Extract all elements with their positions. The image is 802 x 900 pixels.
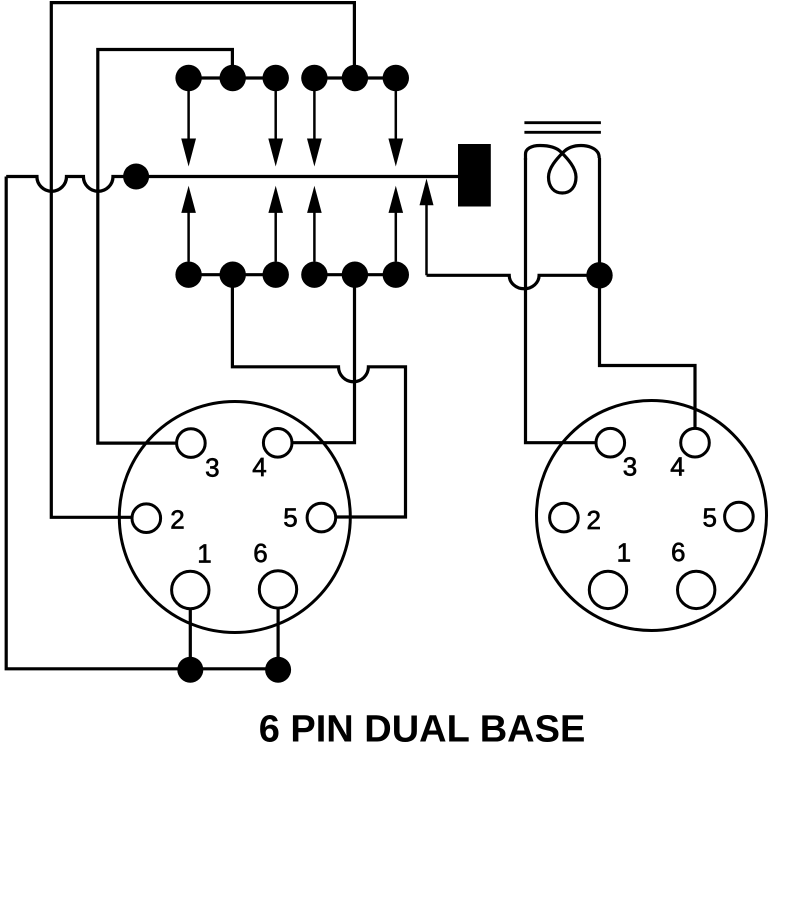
- wire top bus 1: [51, 3, 354, 78]
- svg-text:6: 6: [671, 537, 685, 567]
- contact arrow down A2: [268, 88, 283, 167]
- contact arrow down A1: [181, 88, 196, 167]
- wire left base pin 6 drop: [277, 606, 280, 669]
- junction dot T5: [342, 65, 368, 91]
- wire bottom contact bar group 2: [314, 273, 395, 276]
- contact arrow up C (coil return): [420, 179, 434, 276]
- junction dot B5: [342, 262, 368, 288]
- wire left crossing vertical to pin 2: [51, 78, 132, 517]
- svg-text:2: 2: [586, 505, 600, 535]
- wire bottom dot5 to left base pin 4: [292, 280, 355, 443]
- contact arrow down A4: [388, 88, 403, 167]
- left base outline: [119, 402, 350, 633]
- wire top contact bar group 2: [314, 76, 395, 79]
- contact arrow up B3: [307, 186, 322, 262]
- right base pin 2: [550, 503, 579, 532]
- left base pin 6: [259, 571, 296, 608]
- junction dot B6: [383, 262, 409, 288]
- contact arrow up B1: [181, 186, 196, 262]
- coil core double lines: [524, 123, 601, 133]
- wire top contact bar group 1: [189, 76, 276, 79]
- junction dot T6: [383, 65, 409, 91]
- junction dot B1: [175, 262, 201, 288]
- junction dot on main line: [123, 164, 149, 190]
- left base pin 4: [263, 429, 292, 458]
- right base pin 4: [681, 428, 710, 457]
- svg-text:4: 4: [252, 452, 266, 482]
- svg-text:6 PIN DUAL BASE: 6 PIN DUAL BASE: [259, 709, 586, 751]
- junction dot B4: [301, 262, 327, 288]
- wire main horizontal line with two hops: [6, 177, 458, 192]
- junction dot B3: [263, 262, 289, 288]
- wire second crossing vertical to pin 3: [98, 176, 177, 443]
- svg-text:2: 2: [170, 505, 184, 535]
- junction dot bottom right: [265, 657, 291, 683]
- wire coil right lead to right base pin 4: [600, 158, 696, 428]
- left base pin 1: [172, 571, 209, 608]
- wire far left vertical to bottom junctions: [6, 177, 278, 669]
- junction dot T2: [220, 65, 246, 91]
- svg-text:6: 6: [253, 538, 267, 568]
- left base pin 5: [307, 503, 336, 532]
- right base pin 6: [678, 571, 715, 608]
- wire bottom dot2 to left base pin 5 with hop: [232, 280, 405, 517]
- right base outline: [537, 401, 767, 631]
- wire coil left lead to right base pin 3: [526, 158, 597, 443]
- contact arrow down A3: [307, 88, 322, 167]
- junction dot T4: [301, 65, 327, 91]
- right base pin 3: [596, 428, 625, 457]
- wire bottom contact bar group 1: [189, 273, 276, 276]
- junction dot coil right: [586, 262, 612, 288]
- svg-text:1: 1: [197, 539, 211, 569]
- junction dot B2: [220, 262, 246, 288]
- svg-text:5: 5: [283, 503, 297, 533]
- left base pin 2: [132, 504, 161, 533]
- junction dot bottom left: [177, 657, 203, 683]
- wire top bus 2: [98, 50, 233, 177]
- junction dot T1: [175, 65, 201, 91]
- contact arrow up B4: [389, 186, 404, 262]
- svg-text:4: 4: [670, 452, 684, 482]
- contact block rectangle: [458, 144, 491, 207]
- svg-text:3: 3: [623, 452, 637, 482]
- svg-text:1: 1: [617, 538, 631, 568]
- right base pin 1: [589, 571, 626, 608]
- junction dot T3: [263, 65, 289, 91]
- right base pin 5: [725, 502, 754, 531]
- wire left base pin 1 drop: [189, 606, 192, 669]
- svg-text:3: 3: [205, 453, 219, 483]
- svg-text:5: 5: [702, 503, 716, 533]
- wire coil return horizontal with hop: [427, 275, 600, 288]
- coil K1 loop: [526, 146, 600, 194]
- left base pin 3: [177, 429, 206, 458]
- contact arrow up B2: [268, 186, 283, 262]
